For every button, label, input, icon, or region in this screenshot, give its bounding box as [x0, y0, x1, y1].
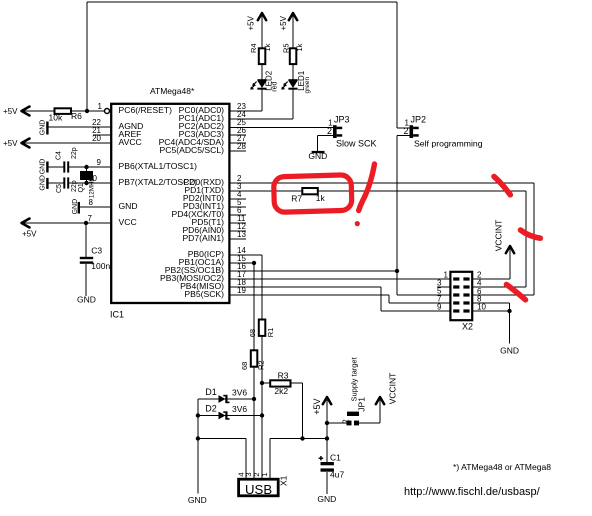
svg-text:D1: D1: [205, 387, 217, 397]
svg-text:2: 2: [327, 126, 332, 136]
svg-text:JP2: JP2: [411, 115, 427, 125]
svg-text:X2: X2: [462, 321, 473, 331]
svg-text:JP3: JP3: [334, 115, 350, 125]
svg-text:10: 10: [477, 302, 486, 311]
svg-text:C5: C5: [56, 184, 63, 193]
svg-text:3V6: 3V6: [232, 388, 247, 398]
svg-text:GND: GND: [317, 494, 336, 504]
svg-text:X1: X1: [278, 475, 288, 486]
svg-text:8: 8: [89, 198, 94, 207]
svg-text:D2: D2: [205, 404, 217, 414]
svg-text:2k2: 2k2: [274, 386, 288, 396]
svg-text:R6: R6: [71, 111, 82, 121]
svg-text:GND: GND: [119, 201, 138, 211]
svg-text:R2: R2: [257, 360, 266, 370]
svg-text:13: 13: [237, 230, 246, 239]
svg-text:*) ATMega48 or ATMega8: *) ATMega48 or ATMega8: [453, 462, 551, 472]
svg-text:R4: R4: [249, 43, 258, 53]
svg-text:R7: R7: [291, 193, 302, 203]
svg-text:GND: GND: [39, 175, 46, 191]
svg-text:GND: GND: [188, 495, 207, 505]
svg-text:green: green: [304, 76, 311, 93]
svg-text:AVCC: AVCC: [119, 137, 142, 147]
svg-text:Q1: Q1: [78, 183, 85, 192]
svg-text:Supply target: Supply target: [349, 356, 358, 401]
svg-text:7: 7: [88, 214, 93, 223]
svg-text:20: 20: [92, 134, 101, 143]
svg-text:1k: 1k: [263, 43, 272, 51]
svg-text:100n: 100n: [91, 261, 110, 271]
svg-text:PB5(SCK): PB5(SCK): [184, 289, 224, 299]
svg-text:1: 1: [444, 270, 449, 279]
svg-text:PC6(/RESET): PC6(/RESET): [119, 105, 173, 115]
svg-text:19: 19: [237, 286, 246, 295]
svg-text:R1: R1: [266, 328, 275, 338]
svg-text:3V6: 3V6: [232, 404, 247, 414]
svg-text:VCC: VCC: [119, 217, 137, 227]
svg-text:+5V: +5V: [3, 139, 18, 148]
svg-text:GND: GND: [308, 151, 327, 161]
svg-text:http://www.fischl.de/usbasp/: http://www.fischl.de/usbasp/: [404, 486, 541, 498]
svg-text:+5V: +5V: [279, 15, 288, 30]
svg-text:PC5(ADC5/SCL): PC5(ADC5/SCL): [160, 145, 225, 155]
svg-text:USB: USB: [245, 482, 272, 497]
svg-text:+5V: +5V: [246, 15, 255, 30]
svg-text:C3: C3: [91, 245, 102, 255]
svg-text:GND: GND: [39, 120, 46, 136]
svg-text:PB6(XTAL1/TOSC1): PB6(XTAL1/TOSC1): [119, 161, 198, 171]
svg-text:+5V: +5V: [312, 398, 322, 414]
svg-text:Self programming: Self programming: [414, 139, 483, 149]
svg-text:1: 1: [98, 102, 103, 111]
svg-text:1k: 1k: [316, 193, 326, 203]
svg-text:+5V: +5V: [3, 107, 18, 116]
svg-text:1: 1: [260, 472, 269, 476]
svg-text:PD7(AIN1): PD7(AIN1): [182, 233, 224, 243]
svg-text:C4: C4: [55, 151, 62, 160]
svg-text:28: 28: [237, 142, 246, 151]
svg-text:Slow SCK: Slow SCK: [336, 139, 377, 149]
svg-text:22p: 22p: [71, 180, 78, 192]
svg-text:68: 68: [240, 362, 249, 370]
svg-text:9: 9: [97, 158, 102, 167]
svg-text:R5: R5: [282, 43, 291, 53]
svg-text:22p: 22p: [71, 147, 78, 159]
svg-text:GND: GND: [500, 346, 519, 356]
svg-text:R3: R3: [278, 370, 289, 380]
svg-text:IC1: IC1: [110, 310, 124, 320]
svg-text:ATMega48*: ATMega48*: [150, 86, 195, 96]
svg-text:+5V: +5V: [22, 229, 37, 238]
svg-text:4u7: 4u7: [330, 470, 344, 480]
svg-text:9: 9: [437, 302, 442, 311]
svg-text:10k: 10k: [49, 112, 63, 122]
svg-text:68: 68: [248, 329, 257, 337]
svg-text:2: 2: [403, 126, 408, 136]
svg-text:GND: GND: [77, 295, 96, 305]
svg-text:C1: C1: [330, 453, 341, 463]
svg-text:VCCINT: VCCINT: [493, 220, 503, 252]
svg-text:GND: GND: [72, 199, 79, 215]
svg-text:red: red: [272, 81, 279, 91]
svg-text:1k: 1k: [295, 43, 304, 51]
svg-text:12MHz: 12MHz: [89, 178, 96, 198]
svg-text:2: 2: [341, 419, 350, 424]
svg-text:VCCINT: VCCINT: [388, 373, 398, 405]
svg-text:GND: GND: [39, 159, 46, 175]
